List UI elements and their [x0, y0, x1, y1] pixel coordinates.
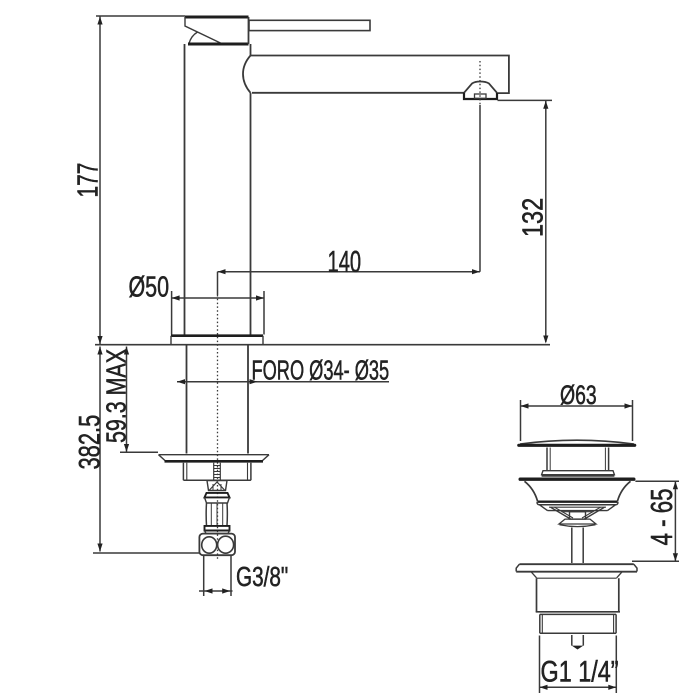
dim G3/8 — [199, 556, 233, 596]
svg-text:Ø63: Ø63 — [560, 380, 597, 410]
aerator centerline — [479, 61, 481, 105]
hose end nuts block — [199, 534, 235, 556]
dim 382.5 — [93, 347, 200, 554]
dim 59.3 MAX — [120, 347, 158, 453]
faucet centerline — [217, 295, 219, 560]
FORO leader — [177, 379, 389, 384]
waste taper band — [540, 505, 616, 511]
crimp cone — [207, 481, 227, 491]
dim 132 — [498, 100, 553, 343]
hose end circle right — [218, 536, 234, 553]
svg-text:FORO Ø34- Ø35: FORO Ø34- Ø35 — [252, 356, 390, 387]
waste trumpet body — [525, 481, 631, 501]
waste bottom flange — [516, 564, 637, 578]
svg-text:Ø50: Ø50 — [129, 271, 170, 303]
hose end circle left — [202, 537, 217, 553]
hose top collar — [205, 493, 230, 503]
faucet handle cap — [185, 17, 249, 44]
svg-text:59.3 MAX: 59.3 MAX — [101, 349, 132, 443]
waste threaded tail — [540, 614, 616, 633]
waste pin — [572, 635, 584, 650]
faucet lever bar — [249, 20, 370, 30]
mounting nut — [183, 463, 251, 481]
waste dim D63 — [521, 400, 633, 441]
spout — [243, 56, 509, 94]
svg-text:140: 140 — [328, 244, 362, 280]
shank below counter — [187, 345, 249, 454]
svg-text:177: 177 — [72, 163, 104, 198]
waste ring band — [537, 502, 618, 505]
waste cap — [519, 440, 635, 445]
waste stem lip — [542, 471, 615, 476]
faucet body column — [185, 44, 251, 336]
dim 140 — [218, 105, 481, 295]
dim 4-65 — [632, 481, 679, 561]
waste body cylinder — [536, 578, 620, 612]
dim D50 — [172, 291, 264, 335]
dim 177 — [96, 16, 185, 344]
svg-text:132: 132 — [516, 198, 549, 237]
aerator — [464, 82, 497, 100]
washer plate — [159, 455, 270, 462]
svg-text:4 - 65: 4 - 65 — [644, 488, 678, 545]
waste rim — [520, 478, 634, 481]
hose bottom collar — [205, 526, 230, 534]
waste cone spokes — [551, 507, 605, 526]
waste stem — [547, 448, 609, 471]
svg-text:G1 1/4”: G1 1/4” — [541, 655, 619, 688]
waste rod — [572, 528, 583, 564]
braided hose — [206, 503, 227, 526]
dim G1 1/4 — [540, 636, 617, 694]
counter line — [95, 344, 550, 346]
base flange — [171, 336, 263, 344]
svg-text:G3/8": G3/8" — [236, 562, 288, 593]
